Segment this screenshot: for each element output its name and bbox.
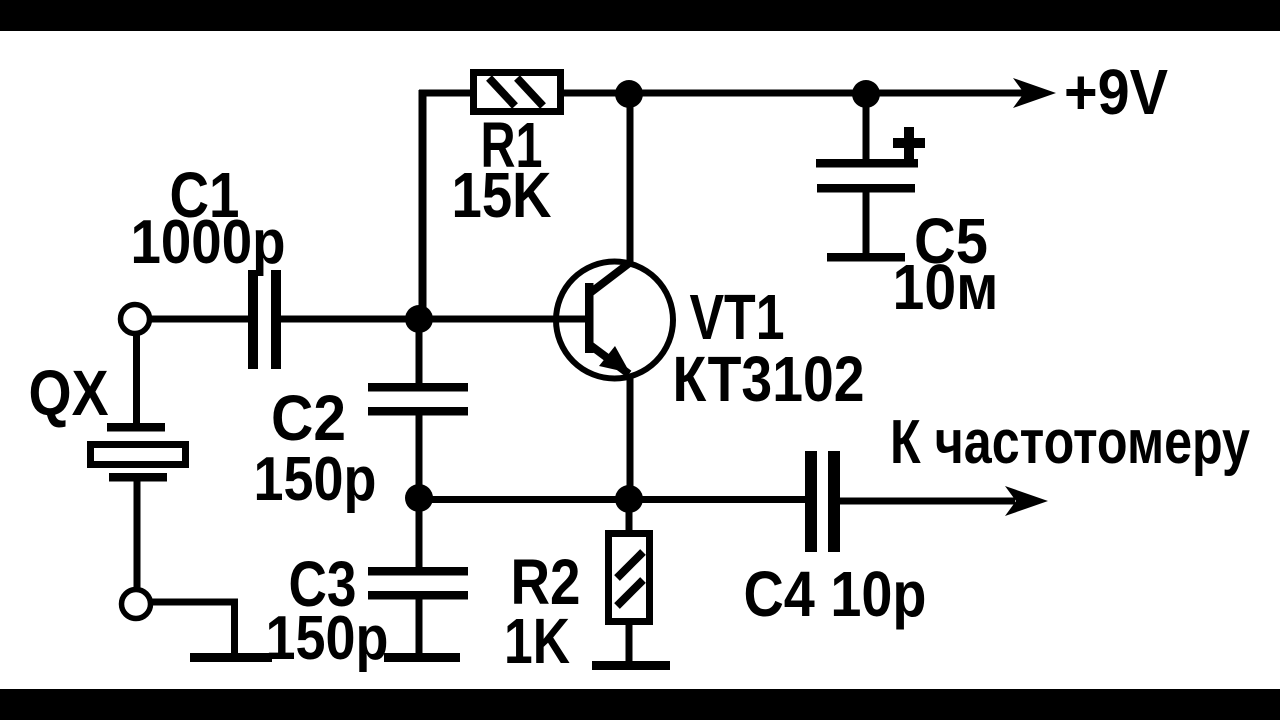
wire: crystal top lead xyxy=(133,333,140,428)
capacitor C1 xyxy=(248,270,281,369)
svg-text:КТ3102: КТ3102 xyxy=(673,343,865,415)
wire: +9V rail left stub xyxy=(419,90,470,97)
capacitor C5 (electrolytic) xyxy=(816,94,918,262)
ground bar (C3) xyxy=(384,653,460,662)
capacitor C3 xyxy=(368,567,468,600)
wire: bottom terminal to ground corner xyxy=(151,599,238,658)
wire: C2 down to emitter feedback node xyxy=(416,415,423,498)
node A: base node dot xyxy=(405,305,433,333)
C5 plus sign xyxy=(893,127,925,159)
wire: crystal bottom lead xyxy=(134,481,141,589)
top letterbox bar xyxy=(0,0,1280,31)
node: collector junction dot xyxy=(615,80,643,108)
capacitor C4 xyxy=(805,451,840,552)
svg-text:1000p: 1000p xyxy=(131,208,286,277)
input terminal circle (top) xyxy=(121,305,150,334)
arrowhead +9V xyxy=(1013,78,1056,108)
wire: base node to transistor base xyxy=(419,316,587,323)
crystal QX xyxy=(91,423,186,482)
wire: C4 to output arrow xyxy=(840,498,1015,505)
bottom letterbox bar xyxy=(0,689,1280,720)
capacitor C2 xyxy=(368,383,468,416)
node: C5 junction dot xyxy=(852,80,880,108)
wire: rail from R1 to +9V arrow xyxy=(564,90,1030,97)
svg-text:1K: 1K xyxy=(504,605,570,677)
svg-text:C2: C2 xyxy=(271,382,346,454)
svg-text:150p: 150p xyxy=(266,604,389,673)
svg-text:К частотомеру: К частотомеру xyxy=(890,408,1250,477)
resistor R1 xyxy=(474,73,561,112)
ground bar (R2) xyxy=(592,661,670,670)
node E: emitter/R2 junction dot xyxy=(615,485,643,513)
svg-text:+9V: +9V xyxy=(1064,56,1168,128)
node B: feedback node dot xyxy=(405,484,433,512)
svg-text:150p: 150p xyxy=(254,445,377,514)
wire: node B down to C3 xyxy=(416,498,423,568)
svg-text:QX: QX xyxy=(29,357,109,429)
wire: C1 to base node xyxy=(281,316,419,323)
wire: C3 to ground xyxy=(416,599,423,656)
ground bar (QX) xyxy=(190,653,272,662)
resistor R2 xyxy=(609,499,650,662)
svg-text:C4 10p: C4 10p xyxy=(744,558,927,630)
transistor VT1 xyxy=(556,261,673,379)
wire: emitter row from node B to C4 xyxy=(419,496,805,503)
wire: collector up to rail xyxy=(627,94,634,264)
wire: rail corner vertical down to base node xyxy=(419,90,427,319)
svg-text:15K: 15K xyxy=(452,159,552,231)
svg-text:10м: 10м xyxy=(893,251,999,323)
wire: base node down to C2 xyxy=(416,319,423,387)
wire: input to C1 xyxy=(150,316,248,323)
wire: emitter down to node E xyxy=(627,374,634,499)
input terminal circle (bottom) xyxy=(122,590,151,619)
arrowhead output xyxy=(1005,486,1048,516)
